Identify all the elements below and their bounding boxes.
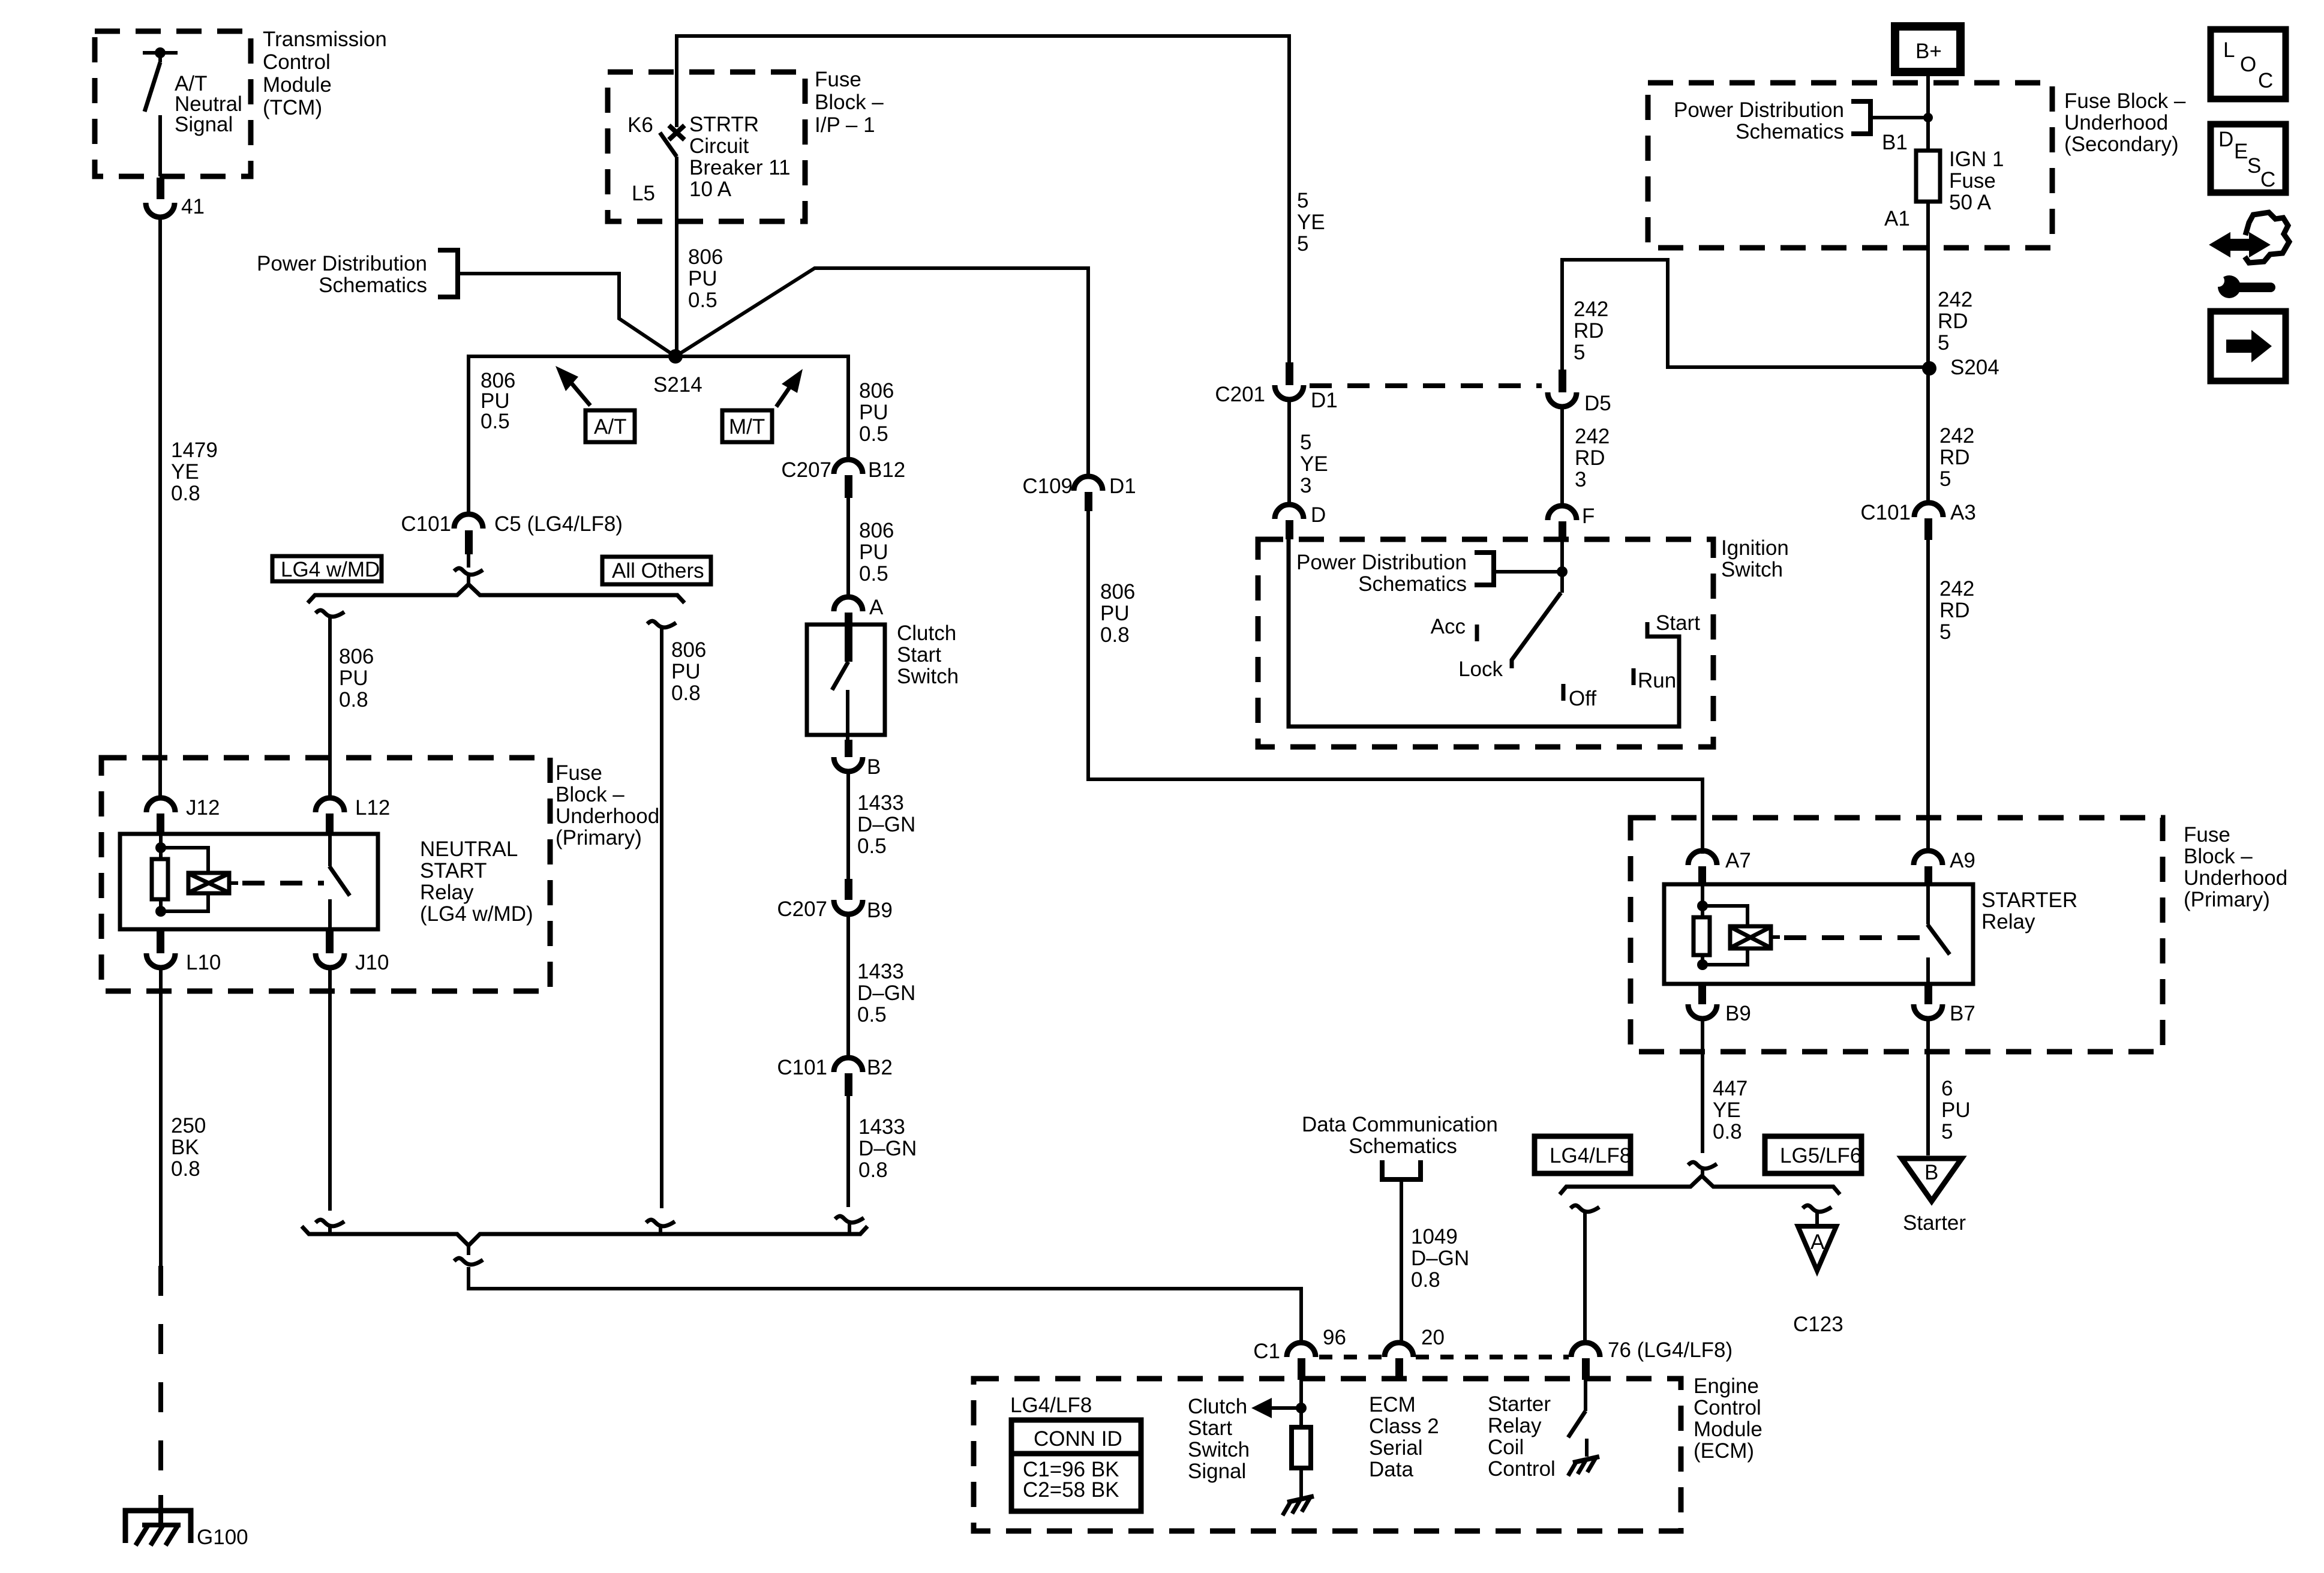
connector J12 arc — [146, 798, 175, 812]
svg-text:B: B — [867, 755, 881, 779]
svg-text:Switch: Switch — [897, 665, 959, 688]
svg-text:96: 96 — [1323, 1326, 1346, 1349]
svg-text:Start: Start — [1656, 611, 1700, 635]
wire C109 to A7 — [1088, 510, 1703, 854]
label 1433 D-GN 0.5 lower — [857, 960, 915, 1026]
svg-text:IGN 1: IGN 1 — [1949, 148, 2004, 171]
svg-text:D: D — [2218, 128, 2233, 151]
svg-text:0.5: 0.5 — [859, 422, 888, 446]
svg-text:Fuse Block –: Fuse Block – — [2064, 89, 2186, 113]
label ECM Class 2 Serial Data — [1369, 1393, 1439, 1481]
icon DESC box — [2211, 124, 2286, 193]
label Fuse Block Underhood (Primary) right — [2184, 823, 2287, 911]
label 806 PU 0.5 breaker — [688, 245, 723, 312]
break squiggle LG5/LF6 branch — [1803, 1205, 1831, 1212]
bracket power distribution ignition — [1475, 553, 1494, 585]
splice S204 — [1922, 361, 1936, 376]
svg-text:B1: B1 — [1882, 131, 1908, 154]
break squiggle J10 branch at brace — [316, 1220, 344, 1226]
module box Transmission Control Module (TCM) dashed — [95, 31, 251, 176]
svg-text:Block –: Block – — [2184, 845, 2253, 868]
connector C207 B12 arc — [834, 460, 863, 474]
svg-text:Relay: Relay — [420, 881, 474, 904]
svg-text:NEUTRAL: NEUTRAL — [420, 837, 518, 861]
option box All Others — [602, 557, 711, 584]
svg-text:242: 242 — [1939, 424, 1974, 448]
relay box NEUTRAL START Relay — [120, 834, 378, 929]
fuse IGN 1 50A — [1916, 151, 1940, 202]
connector 20 pin — [1395, 1358, 1403, 1380]
svg-text:PU: PU — [1941, 1098, 1971, 1122]
connector C201 D1 arc — [1275, 385, 1304, 400]
svg-text:0.5: 0.5 — [857, 834, 887, 858]
connector J12 pin — [157, 813, 164, 835]
svg-text:(Primary): (Primary) — [2184, 888, 2270, 911]
svg-text:Schematics: Schematics — [1736, 120, 1844, 143]
svg-text:D1: D1 — [1311, 389, 1338, 412]
label 806 PU 0.8 All Others — [671, 638, 706, 705]
label 806 PU 0.5 at C5 — [481, 369, 515, 433]
svg-text:A/T: A/T — [594, 415, 626, 439]
connector D pin — [1286, 520, 1293, 539]
wire B9 to B2 — [846, 914, 850, 1059]
svg-text:S204: S204 — [1950, 356, 1999, 379]
connector A7 pin — [1698, 866, 1706, 885]
connector A pin — [845, 613, 852, 662]
svg-text:(ECM): (ECM) — [1694, 1439, 1754, 1463]
svg-text:PU: PU — [1100, 602, 1130, 625]
svg-text:E: E — [2234, 140, 2248, 163]
wire LG4 branch down to L12 — [328, 618, 332, 798]
label STARTER Relay — [1981, 888, 2077, 933]
wire bracket to ignition junction — [1494, 570, 1562, 574]
label Fuse Block Underhood (Primary) — [556, 761, 659, 849]
svg-text:Starter: Starter — [1903, 1211, 1966, 1235]
svg-text:C1: C1 — [1253, 1340, 1280, 1363]
splice S214 — [668, 349, 683, 364]
svg-text:806: 806 — [1100, 580, 1135, 604]
break squiggle 447 YE at brace — [1688, 1162, 1717, 1169]
break squiggle brace output — [454, 1258, 483, 1265]
svg-text:Clutch: Clutch — [897, 622, 956, 645]
svg-text:PU: PU — [859, 401, 888, 424]
relay coil circuit neutral start — [152, 835, 238, 917]
svg-text:Run: Run — [1638, 669, 1676, 692]
svg-text:A3: A3 — [1950, 501, 1976, 524]
wire LG4/LF8 branch to ECM 76 — [1583, 1213, 1587, 1344]
connector 76 arc — [1571, 1343, 1600, 1357]
switch Clutch Start Switch box — [807, 625, 885, 735]
connector J10 pin — [326, 930, 334, 953]
svg-text:5: 5 — [1938, 331, 1949, 355]
label Fuse Block Underhood (Secondary) — [2064, 89, 2186, 156]
svg-text:M/T: M/T — [729, 415, 765, 439]
break squiggle LG4/LF8 branch — [1571, 1205, 1599, 1212]
svg-text:I/P – 1: I/P – 1 — [815, 113, 875, 137]
svg-text:3: 3 — [1575, 468, 1586, 491]
connector B9 arc — [1688, 1004, 1717, 1019]
label 242 RD 3 — [1575, 425, 1610, 491]
break squiggle All Others at brace — [646, 1220, 675, 1226]
svg-text:PU: PU — [859, 541, 888, 564]
svg-text:G100: G100 — [197, 1526, 248, 1549]
connector A arc — [834, 597, 863, 611]
svg-text:Underhood: Underhood — [2184, 866, 2287, 890]
svg-text:RD: RD — [1574, 319, 1604, 343]
label Fuse Block I/P-1 — [815, 68, 884, 137]
svg-text:L5: L5 — [632, 182, 655, 205]
wire fuse to S204 to A3 — [1926, 202, 1930, 503]
svg-text:A: A — [869, 596, 884, 619]
svg-text:1433: 1433 — [857, 960, 904, 983]
wire D5 to F — [1560, 407, 1564, 507]
svg-text:Block –: Block – — [556, 783, 624, 806]
label NEUTRAL START Relay (LG4 w/MD) — [420, 837, 533, 926]
arrow clutch signal — [1251, 1398, 1301, 1418]
svg-text:C123: C123 — [1793, 1313, 1843, 1336]
connector D5 arc — [1548, 392, 1577, 407]
label 242 RD 5 above D5 — [1574, 298, 1608, 364]
connector L12 pin — [326, 813, 334, 835]
svg-text:Ignition: Ignition — [1721, 536, 1789, 560]
svg-text:C: C — [2258, 69, 2273, 92]
label Clutch Start Switch — [897, 622, 959, 688]
relay coil dashed link starter — [1784, 935, 1923, 940]
wire B12 to A — [846, 498, 850, 598]
svg-text:C101: C101 — [1860, 501, 1911, 524]
relay switch neutral start — [329, 835, 350, 928]
wire from power distribution to S214 — [458, 274, 675, 356]
svg-text:Block –: Block – — [815, 91, 884, 114]
connector A9 pin — [1924, 866, 1932, 885]
label 242 RD 5 below fuse — [1938, 288, 1972, 355]
svg-text:CONN ID: CONN ID — [1034, 1427, 1122, 1451]
svg-text:K6: K6 — [627, 113, 653, 137]
label Ignition Switch — [1721, 536, 1789, 581]
break squiggle under C5 — [454, 568, 483, 575]
wire L10 down 250 BK — [159, 968, 163, 1266]
connector C101 B2 pin — [845, 1073, 852, 1096]
connector C201 D1 pin — [1286, 362, 1293, 385]
relay box STARTER Relay — [1664, 884, 1973, 984]
wire J10 down to bottom brace — [328, 968, 332, 1211]
svg-text:Clutch: Clutch — [1188, 1395, 1247, 1418]
svg-text:0.8: 0.8 — [858, 1158, 888, 1182]
svg-text:5: 5 — [1297, 232, 1308, 256]
svg-text:Signal: Signal — [1188, 1460, 1246, 1483]
svg-text:806: 806 — [688, 245, 723, 269]
connector C109 D1 pin — [1085, 492, 1092, 511]
svg-text:Fuse: Fuse — [2184, 823, 2230, 846]
svg-text:806: 806 — [339, 645, 374, 668]
svg-text:Start: Start — [897, 643, 941, 667]
svg-text:D5: D5 — [1584, 392, 1611, 415]
svg-text:5: 5 — [1300, 431, 1311, 454]
connector 76 pin — [1582, 1358, 1590, 1380]
svg-text:B+: B+ — [1915, 40, 1942, 63]
relay coil circuit starter — [1694, 885, 1780, 970]
svg-text:6: 6 — [1941, 1077, 1953, 1100]
svg-text:RD: RD — [1938, 310, 1968, 333]
svg-text:C109: C109 — [1022, 475, 1073, 498]
svg-text:Power Distribution: Power Distribution — [1296, 551, 1467, 574]
icon hand with wrench — [2212, 212, 2289, 298]
svg-text:ECM: ECM — [1369, 1393, 1416, 1416]
wire bus at S214 — [469, 356, 848, 514]
svg-text:B7: B7 — [1950, 1002, 1975, 1025]
svg-text:0.8: 0.8 — [1713, 1120, 1742, 1143]
svg-text:5: 5 — [1297, 189, 1308, 212]
svg-text:Data Communication: Data Communication — [1302, 1113, 1498, 1136]
svg-text:Transmission: Transmission — [263, 28, 387, 51]
svg-text:242: 242 — [1575, 425, 1610, 448]
svg-text:O: O — [2240, 53, 2256, 76]
svg-text:F: F — [1582, 505, 1595, 528]
svg-text:806: 806 — [859, 379, 894, 403]
svg-text:LG5/LF6: LG5/LF6 — [1780, 1144, 1861, 1167]
svg-text:250: 250 — [171, 1114, 206, 1137]
wire stub C5 to brace — [467, 554, 470, 584]
break squiggle All Others branch — [647, 621, 676, 628]
module box Fuse Block I/P-1 dashed — [608, 72, 805, 221]
svg-text:STRTR: STRTR — [689, 113, 759, 136]
wire A3 to A9 — [1926, 540, 1930, 852]
connector B7 arc — [1914, 1004, 1942, 1019]
svg-text:Underhood: Underhood — [2064, 111, 2168, 134]
svg-text:Module: Module — [1694, 1418, 1762, 1441]
switch A/T Neutral Signal inside TCM — [143, 47, 178, 176]
bracket data communication — [1382, 1160, 1421, 1179]
label Power Distribution Schematics left — [257, 252, 427, 297]
option brace 447 YE split — [1560, 1176, 1840, 1194]
dashed connector row C1 to 20 — [1319, 1355, 1382, 1359]
module box Ignition Switch dashed — [1258, 539, 1713, 747]
svg-text:B9: B9 — [1725, 1002, 1751, 1025]
svg-text:Lock: Lock — [1458, 658, 1503, 681]
svg-text:All Others: All Others — [612, 559, 704, 583]
label 447 YE 0.8 — [1713, 1077, 1747, 1143]
svg-text:D1: D1 — [1109, 475, 1136, 498]
svg-text:A9: A9 — [1950, 849, 1975, 872]
svg-text:Start: Start — [1188, 1416, 1232, 1440]
svg-text:LG4/LF8: LG4/LF8 — [1010, 1394, 1092, 1417]
module box Fuse Block Underhood Primary right dashed — [1631, 818, 2163, 1052]
label A/T Neutral Signal — [175, 72, 242, 136]
label Power Distribution Schematics secondary — [1674, 98, 1844, 143]
svg-text:Breaker 11: Breaker 11 — [689, 156, 791, 179]
svg-text:LG4 w/MD: LG4 w/MD — [281, 558, 380, 581]
svg-text:1049: 1049 — [1411, 1225, 1458, 1248]
svg-text:0.5: 0.5 — [688, 289, 717, 312]
svg-text:1479: 1479 — [171, 439, 218, 462]
svg-text:Acc: Acc — [1431, 615, 1466, 638]
svg-text:RD: RD — [1939, 446, 1970, 469]
svg-text:447: 447 — [1713, 1077, 1747, 1100]
svg-text:Starter: Starter — [1488, 1392, 1551, 1416]
svg-text:YE: YE — [1297, 211, 1325, 234]
contact tick Run — [1632, 668, 1636, 685]
wire B7 down 6 PU — [1926, 1019, 1930, 1155]
wire stub All Others to brace — [659, 1227, 662, 1234]
svg-text:YE: YE — [1300, 452, 1328, 476]
connector 41 pin — [157, 178, 164, 199]
label Engine Control Module (ECM) — [1694, 1374, 1762, 1463]
label STRTR Circuit Breaker 11 10 A — [689, 113, 791, 201]
label Power Distribution Schematics ignition — [1296, 551, 1467, 596]
svg-text:Data: Data — [1369, 1458, 1413, 1481]
wire data comm to ECM 20 — [1400, 1179, 1403, 1343]
wire 1479 YE from 41 to J12 — [158, 217, 162, 798]
svg-text:Power Distribution: Power Distribution — [257, 252, 427, 275]
junction dot clutch signal — [1296, 1403, 1307, 1413]
switch clutch lever — [832, 662, 848, 740]
svg-text:B9: B9 — [867, 899, 893, 922]
wire B2 to bottom brace — [846, 1096, 850, 1207]
svg-text:Relay: Relay — [1488, 1414, 1542, 1437]
svg-text:Class 2: Class 2 — [1369, 1415, 1439, 1438]
svg-text:5: 5 — [1939, 620, 1951, 644]
svg-text:0.5: 0.5 — [859, 562, 888, 586]
svg-text:0.5: 0.5 — [481, 410, 510, 433]
svg-text:Fuse: Fuse — [815, 68, 861, 91]
svg-text:0.8: 0.8 — [671, 682, 701, 705]
connector C207 B12 pin — [845, 475, 852, 498]
connector C101 A3 arc — [1914, 503, 1943, 517]
dashed connector row 20 to 76 — [1416, 1355, 1569, 1359]
svg-text:Coil: Coil — [1488, 1436, 1524, 1459]
label Clutch Start Switch Signal — [1188, 1395, 1250, 1483]
label Starter Relay Coil Control — [1488, 1392, 1556, 1481]
svg-text:Fuse: Fuse — [1949, 169, 1996, 193]
svg-text:Signal: Signal — [175, 113, 233, 136]
break squiggle B2 branch at brace — [835, 1216, 864, 1223]
svg-text:Relay: Relay — [1981, 910, 2035, 933]
connector L12 arc — [316, 798, 344, 812]
connector D arc — [1275, 505, 1304, 519]
wire B9 down 447 YE — [1701, 1019, 1704, 1153]
svg-text:D–GN: D–GN — [858, 1137, 917, 1160]
svg-text:PU: PU — [688, 267, 717, 290]
bracket power distribution left — [438, 250, 458, 297]
svg-text:S214: S214 — [653, 373, 702, 397]
label 806 PU 0.5 above B12 — [859, 379, 894, 446]
connector L10 arc — [146, 953, 175, 968]
svg-text:LG4/LF8: LG4/LF8 — [1550, 1144, 1631, 1167]
relay switch starter — [1927, 885, 1950, 983]
svg-text:242: 242 — [1938, 288, 1972, 311]
svg-text:Schematics: Schematics — [1358, 572, 1467, 596]
svg-text:Off: Off — [1569, 687, 1596, 710]
svg-text:D–GN: D–GN — [1411, 1247, 1469, 1270]
arrow M/T callout — [722, 369, 803, 442]
ignition rotor lever to Lock — [1560, 574, 1564, 593]
svg-text:806: 806 — [671, 638, 706, 662]
ignition start feed path D to Start contact — [1289, 539, 1679, 727]
svg-text:1433: 1433 — [857, 791, 904, 815]
wire F to junction — [1560, 539, 1564, 593]
contact tick Acc — [1475, 625, 1479, 641]
svg-text:Control: Control — [263, 50, 331, 74]
ground starter relay coil driver — [1568, 1457, 1599, 1476]
svg-text:(LG4 w/MD): (LG4 w/MD) — [420, 902, 533, 926]
module box Engine Control Module dashed — [974, 1379, 1681, 1531]
connector A7 arc — [1688, 851, 1717, 865]
connector C101 C5 pin — [465, 530, 473, 554]
label IGN 1 Fuse 50 A — [1949, 148, 2004, 214]
connector J10 arc — [316, 953, 344, 968]
connector B pin — [845, 740, 852, 757]
svg-text:242: 242 — [1574, 298, 1608, 321]
svg-text:242: 242 — [1939, 577, 1974, 601]
svg-text:YE: YE — [1713, 1098, 1741, 1122]
svg-text:(Primary): (Primary) — [556, 826, 642, 849]
wire All Others branch down to bottom brace — [660, 629, 663, 1208]
svg-text:C101: C101 — [401, 512, 451, 536]
connector C101 C5 arc — [454, 514, 483, 529]
connector D5 pin — [1559, 370, 1566, 392]
junction dot ignition — [1557, 566, 1568, 577]
resistor ECM pull-down — [1292, 1427, 1311, 1468]
svg-text:D: D — [1311, 503, 1326, 527]
wire B+ to fuse — [1926, 72, 1930, 151]
svg-text:B2: B2 — [867, 1056, 893, 1079]
label 242 RD 5 below S204 — [1939, 424, 1974, 491]
connector C101 B2 arc — [834, 1058, 863, 1072]
wire 806 PU from breaker to S214 — [675, 157, 678, 356]
option brace bottom merge — [302, 1226, 867, 1245]
wire D5 path to S204 — [1562, 260, 1923, 391]
contact tick Off — [1562, 684, 1566, 701]
svg-text:Power Distribution: Power Distribution — [1674, 98, 1844, 122]
connector B9 pin — [1698, 984, 1706, 1004]
svg-text:YE: YE — [171, 460, 199, 484]
connector B arc — [834, 757, 863, 772]
svg-text:Fuse: Fuse — [556, 761, 602, 785]
connector C207 B9 pin — [845, 879, 852, 900]
option brace under C5 — [308, 584, 684, 603]
connector L10 pin — [157, 930, 164, 953]
svg-text:5: 5 — [1941, 1120, 1953, 1143]
svg-text:START: START — [420, 859, 487, 882]
label 1433 D-GN 0.8 — [858, 1115, 917, 1182]
module box Fuse Block Underhood Secondary dashed — [1648, 83, 2052, 248]
svg-text:A7: A7 — [1725, 849, 1751, 872]
connector triangle A C123 — [1798, 1226, 1836, 1271]
svg-text:RD: RD — [1575, 446, 1605, 470]
label 1049 D-GN 0.8 — [1411, 1225, 1469, 1292]
svg-text:B12: B12 — [868, 458, 905, 482]
svg-text:Schematics: Schematics — [319, 274, 427, 297]
svg-text:76 (LG4/LF8): 76 (LG4/LF8) — [1608, 1338, 1733, 1362]
svg-text:S: S — [2247, 154, 2261, 178]
svg-text:41: 41 — [181, 195, 205, 218]
module box Fuse Block Underhood Primary dashed — [101, 758, 550, 991]
svg-text:L: L — [2223, 38, 2235, 62]
svg-text:D–GN: D–GN — [857, 813, 915, 836]
svg-text:Module: Module — [263, 73, 332, 97]
option box LG5/LF6 — [1765, 1136, 1861, 1173]
dashed link C201 to D5 — [1310, 383, 1542, 388]
svg-text:0.8: 0.8 — [339, 688, 368, 712]
svg-text:(TCM): (TCM) — [263, 96, 322, 119]
svg-text:C101: C101 — [777, 1056, 827, 1079]
svg-text:5: 5 — [1939, 467, 1951, 491]
wire brace output to ECM C1 — [469, 1245, 1301, 1344]
svg-text:Control: Control — [1488, 1457, 1556, 1481]
connector C1 pin — [1298, 1358, 1305, 1380]
icon LOC box — [2211, 29, 2286, 99]
svg-text:J12: J12 — [186, 796, 220, 819]
